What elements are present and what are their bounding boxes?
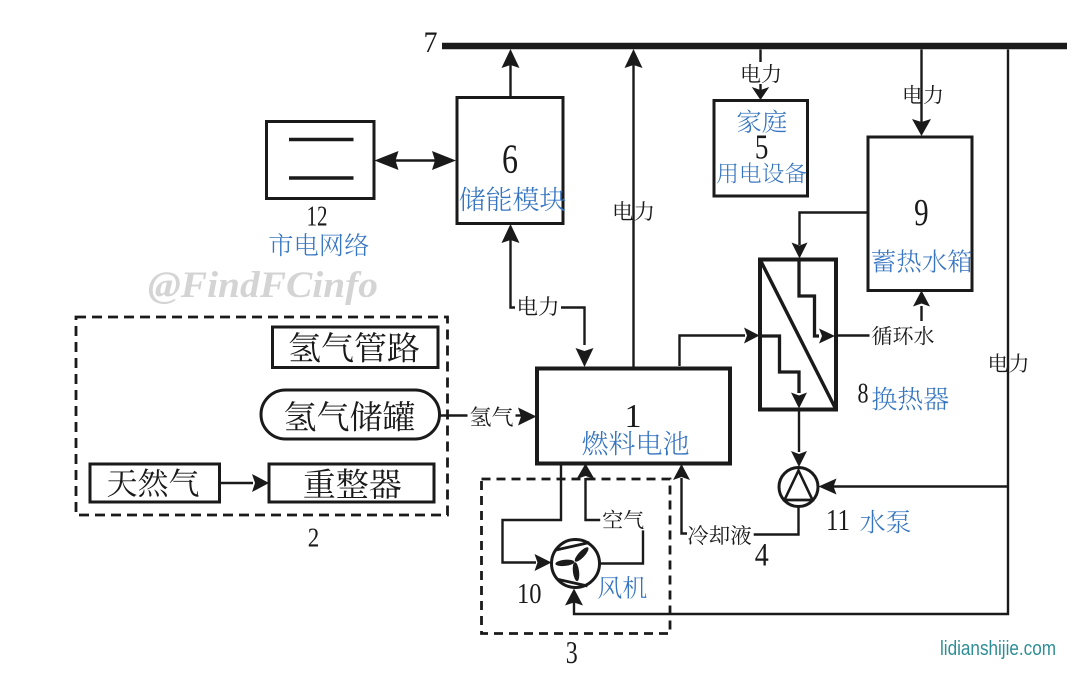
label 冷却液 (685, 524, 754, 546)
label 空气 (600, 509, 646, 531)
label 风机 (598, 576, 646, 599)
site label lidianshijie.com (940, 638, 1056, 660)
pump triangle (785, 471, 813, 501)
fuel cell box 1 燃料电池 (537, 369, 730, 464)
fan bottom chord (557, 579, 587, 586)
svg-text:lidianshijie.com: lidianshijie.com (940, 638, 1056, 660)
label 电力 (right line) (990, 353, 1027, 372)
svg-text:12: 12 (307, 202, 328, 233)
label 3 (566, 634, 578, 670)
label 10 (517, 578, 542, 610)
grid symbol line 1 (289, 138, 354, 142)
box 氢气管路 (hydrogen piping) (273, 327, 439, 368)
dashed box 2 (fuel processing) (76, 317, 448, 515)
label 2 (308, 521, 320, 552)
wire fan outlet to fuel cell (空气) (577, 464, 644, 564)
label 6 (502, 135, 518, 181)
wire hydrogen tank to fuel cell (440, 408, 537, 426)
svg-text:9: 9 (914, 192, 929, 234)
svg-text:@FindFCinfo: @FindFCinfo (148, 265, 378, 306)
bidirectional arrow box12-box6 (375, 151, 457, 170)
bus bar 7 (power bus) (442, 43, 1067, 50)
label 电力 (fuel cell-bus) (615, 201, 653, 221)
box 重整器 (reformer) (269, 464, 434, 502)
label 市电网络 (269, 233, 368, 256)
svg-text:2: 2 (308, 521, 320, 552)
dashed box 3 (air system) (482, 479, 671, 634)
fan blades (555, 545, 590, 581)
arrow 天然气 to 重整器 (220, 474, 270, 492)
wire bus to box5 with 电力 (752, 50, 770, 101)
label 1 (625, 398, 642, 435)
label 电力 (box9) (905, 85, 942, 104)
label 储能模块 (460, 186, 566, 211)
wire right power line from bus (574, 50, 1008, 615)
wire box6 bottom power (电力) to fuel cell (502, 224, 594, 367)
stadium 氢气储罐 (hydrogen tank) (261, 390, 440, 439)
wire fuel cell to bus (电力) (625, 49, 643, 369)
heat exchanger lower zigzag (761, 336, 807, 409)
box 12 市电网络 (utility grid) (267, 122, 375, 199)
svg-text:10: 10 (517, 578, 542, 610)
label 水泵 (860, 510, 910, 534)
label 电力 (box6-fuel cell) (519, 296, 557, 316)
wire 冷却液 to fuel cell bottom (673, 464, 690, 534)
label 8 (858, 377, 869, 409)
box 6 储能模块 (energy storage module) (457, 98, 563, 224)
grid symbol line 2 (289, 176, 354, 180)
label 9 (914, 192, 929, 234)
wire bus to box9 with 电力 (912, 50, 931, 137)
svg-text:5: 5 (755, 128, 769, 167)
watermark @FindFCinfo (148, 265, 378, 306)
label 7 (424, 27, 438, 59)
wire pump to 冷却液 corner (753, 507, 799, 535)
box 9 蓄热水箱 (hot water tank) (868, 137, 972, 291)
label 家庭 (738, 109, 787, 132)
label 11 (826, 503, 850, 537)
label 换热器 (872, 387, 948, 411)
svg-text:3: 3 (566, 634, 578, 670)
label 氢气 (468, 405, 516, 428)
svg-text:7: 7 (424, 27, 438, 59)
wire heat exchanger to 循环水 (836, 334, 870, 336)
box 5 家庭用电设备 (household loads) (714, 101, 808, 197)
svg-text:6: 6 (502, 135, 518, 181)
label 氢气管路 (290, 332, 420, 362)
wire heat exchanger to pump (791, 410, 807, 468)
fan 10 circle (552, 540, 600, 588)
label 重整器 (304, 468, 401, 499)
pump chord (784, 499, 813, 502)
wire box6 to bus with arrow (502, 49, 520, 98)
label 天然气 (108, 468, 199, 497)
svg-text:8: 8 (858, 377, 869, 409)
svg-text:1: 1 (625, 398, 642, 435)
label 燃料电池 (583, 431, 689, 456)
wire power to fan bottom (565, 589, 583, 606)
heat exchanger upper zigzag (799, 261, 835, 344)
pump 11 circle (779, 468, 818, 507)
box 天然气 (natural gas) (90, 464, 220, 502)
label 氢气储罐 (285, 401, 414, 431)
label 5 (755, 128, 769, 167)
label 循环水 (870, 325, 937, 347)
label 4 (755, 538, 769, 574)
wire fuel cell down-left to fan inlet (503, 464, 562, 572)
svg-text:4: 4 (755, 538, 769, 574)
wire power to pump (819, 479, 1009, 495)
label 蓄热水箱 (872, 249, 972, 272)
wire 循环水 to box9 bottom (913, 291, 930, 322)
heat exchanger U8 box (760, 260, 836, 410)
label 12 (307, 202, 328, 233)
svg-text:11: 11 (826, 503, 850, 537)
fan top chord (555, 543, 590, 551)
label 电力 (box5) (743, 64, 780, 83)
label 用电设备 (717, 163, 806, 184)
heat exchanger diagonal (760, 260, 836, 410)
wire box9 to heat exchanger top (792, 213, 869, 259)
wire fuel cell to heat exchanger left (680, 328, 760, 367)
